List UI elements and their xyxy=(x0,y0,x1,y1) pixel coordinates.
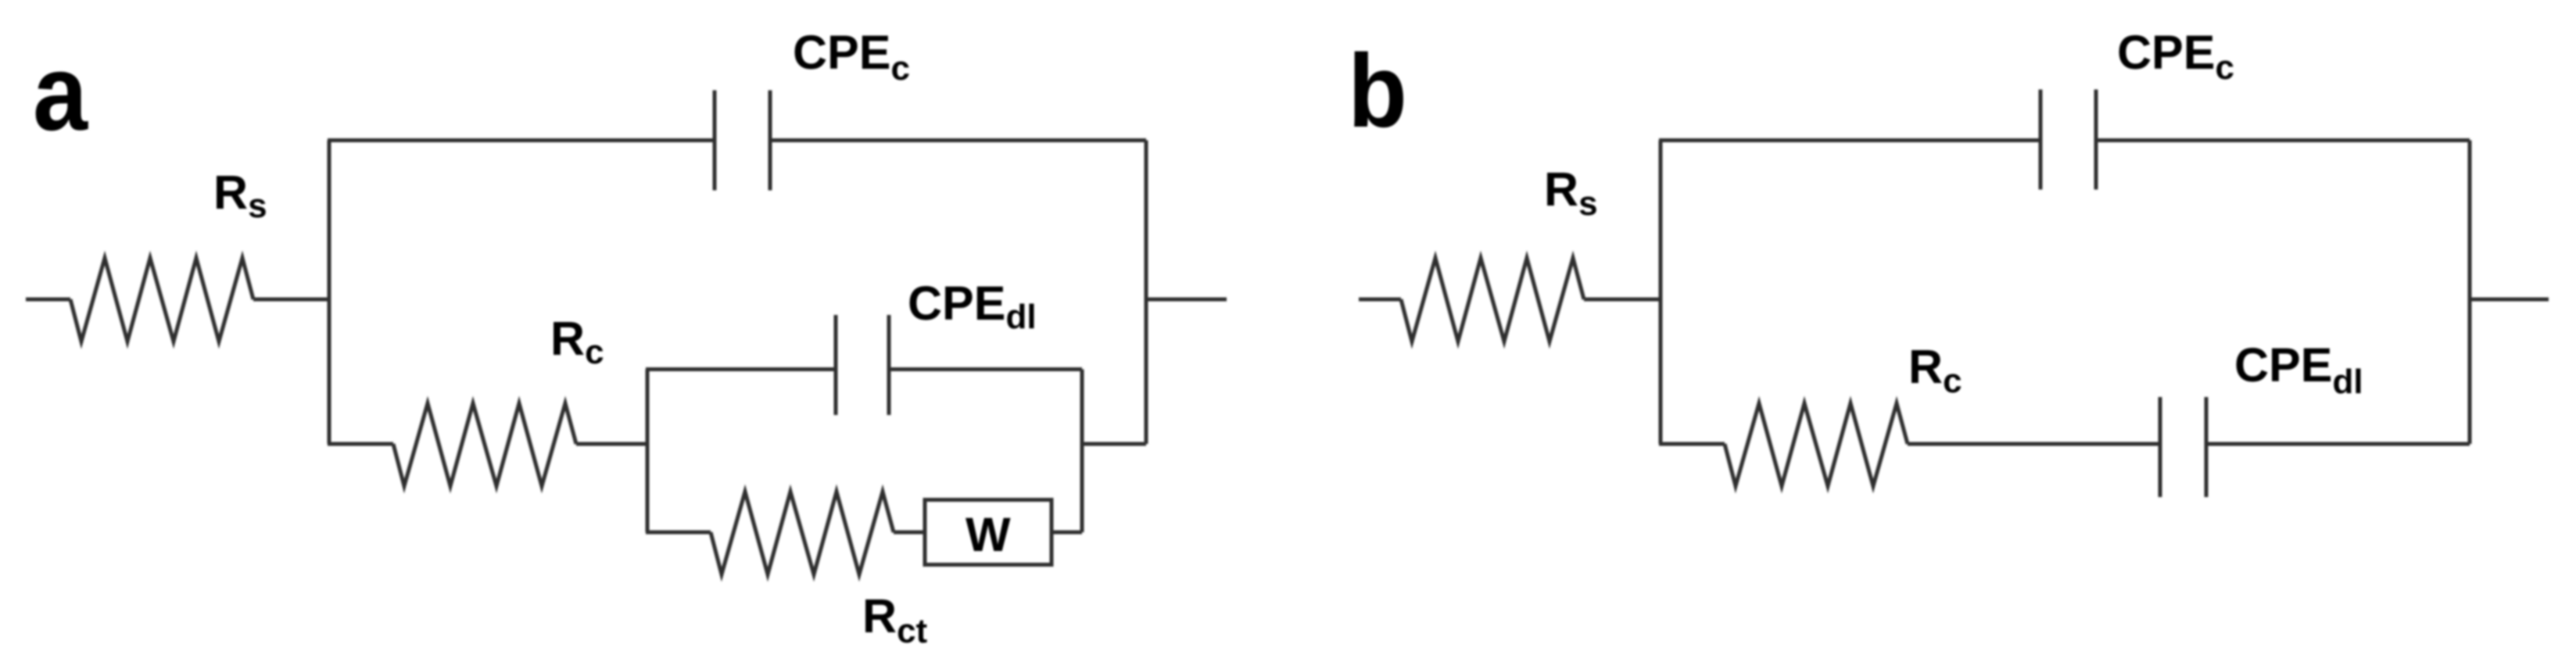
svg-text:Rct: Rct xyxy=(862,589,928,650)
inner-left vertical (panel a) xyxy=(646,370,650,533)
capacitor CPEdl plates (panel a) xyxy=(834,315,838,415)
resistor Rc (panel b) xyxy=(1725,403,1908,486)
node / outer-left vertical (panel a) xyxy=(328,141,331,445)
svg-text:Rs: Rs xyxy=(213,166,267,225)
svg-text:CPEc: CPEc xyxy=(2117,26,2234,87)
wire W to inner-right vertical (panel a) xyxy=(1052,531,1082,535)
svg-text:CPEdl: CPEdl xyxy=(908,277,1037,336)
outer-right vertical (panel a) xyxy=(1145,141,1148,445)
wire CPEdl to outer-right (panel b) xyxy=(2206,442,2470,446)
Warburg element W box (panel a) xyxy=(925,500,1052,565)
wire Rc to inner node (panel a) xyxy=(576,442,647,446)
svg-text:a: a xyxy=(33,33,88,153)
outer-right vertical (panel b) xyxy=(2468,141,2472,445)
capacitor CPEc plates (panel a) xyxy=(713,91,717,191)
svg-text:Rs: Rs xyxy=(1544,163,1598,223)
inner-right vertical (panel a) xyxy=(1080,370,1084,533)
wire Rs to node (panel b) xyxy=(1584,298,1661,302)
resistor Rc (panel a) xyxy=(393,403,576,486)
outer-left vertical (panel b) xyxy=(1659,141,1663,445)
svg-text:Rc: Rc xyxy=(550,312,604,371)
wire top-right (panel a) xyxy=(770,138,1146,142)
wire top-right (panel b) xyxy=(2096,138,2470,142)
wire bottom-left (panel a) xyxy=(328,442,393,446)
inner top wire right (panel a) xyxy=(889,367,1082,371)
resistor Rs (panel a) xyxy=(70,258,253,342)
wire Rc to CPEdl (panel b) xyxy=(1908,442,2160,446)
svg-text:W: W xyxy=(966,508,1011,561)
output lead (panel a) xyxy=(1146,298,1227,302)
svg-text:b: b xyxy=(1348,34,1407,149)
wire top-left (panel a) xyxy=(328,138,715,142)
panel b : input lead xyxy=(1359,298,1401,302)
svg-text:CPEdl: CPEdl xyxy=(2234,338,2363,401)
inner bottom wire left (panel a) xyxy=(646,531,711,535)
capacitor CPEdl plates (panel b) xyxy=(2159,397,2162,497)
resistor Rct (panel a) xyxy=(711,492,894,574)
output lead (panel b) xyxy=(2470,298,2549,302)
wire top-left (panel b) xyxy=(1659,138,2040,142)
inner top wire left (panel a) xyxy=(646,367,836,371)
wire Rct to W (panel a) xyxy=(894,531,925,535)
wire inner to outer-right (panel a) xyxy=(1082,442,1146,446)
wire Rs to node xyxy=(253,298,329,302)
capacitor CPEc plates (panel b) xyxy=(2039,90,2043,190)
panel a : input lead xyxy=(26,298,70,302)
svg-text:CPEc: CPEc xyxy=(793,26,910,88)
resistor Rs (panel b) xyxy=(1401,258,1584,342)
wire bottom-left (panel b) xyxy=(1659,442,1725,446)
svg-text:Rc: Rc xyxy=(1908,340,1962,400)
